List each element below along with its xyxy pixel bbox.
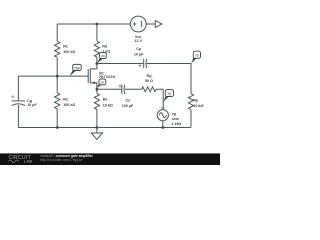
svg-text:http://circuitlab.com/c7dyq4w: http://circuitlab.com/c7dyq4w [40,158,83,162]
svg-text:10 kΩ: 10 kΩ [103,103,113,107]
resistor R2 [56,76,58,93]
capacitor Cg [12,100,26,102]
wire source node to Cs [97,88,121,90]
svg-text:vg: vg [172,112,176,116]
node flag vs [96,79,106,88]
svg-text:100 µF: 100 µF [122,104,134,108]
resistor Rd [94,41,99,57]
svg-text:50 Ω: 50 Ω [145,79,153,83]
svg-text:Rs: Rs [103,98,108,102]
footer bar [0,153,220,165]
node flag vga [70,64,82,76]
ground [96,128,98,134]
junction node ground bus / vg source [161,126,164,129]
junction node vd [96,62,99,65]
wire R1 bottom to gate node [56,57,58,76]
svg-text:vs: vs [101,81,105,85]
svg-text:R1: R1 [63,45,68,49]
wire vg source bottom to bus [162,121,164,128]
wire Cg top [17,76,19,101]
resistor Rs [96,89,98,93]
svg-text:Cs: Cs [125,99,130,103]
svg-text:vd: vd [101,54,105,58]
svg-text:Rd: Rd [102,45,108,49]
wire Rd column top [96,24,98,41]
net pointer triangle Vcc [155,21,162,28]
voltage source Vcc [130,16,146,32]
svg-text:Rp: Rp [193,99,199,103]
capacitor Cs [121,85,123,94]
svg-text:LAB: LAB [24,160,32,164]
svg-text:10 µF: 10 µF [27,103,37,107]
svg-text:vp: vp [195,53,199,57]
wire top rail Vcc net [57,23,130,25]
wire Cg bottom to bus [17,105,19,128]
junction node ground bus / Rs [96,126,99,129]
transistor M1 [87,69,89,83]
wire drain node to Cp [97,63,143,65]
wire Cs to Rg [125,88,142,90]
svg-text:100 kΩ: 100 kΩ [63,103,75,107]
svg-text:R2: R2 [63,98,68,102]
footer logo CircuitLab [9,155,33,164]
svg-text:Cp: Cp [136,47,142,51]
capacitor Cp [143,59,145,68]
wire Cp to vp corner [147,64,191,94]
svg-text:vg: vg [168,92,172,96]
wire Vcc to pointer [146,23,155,25]
svg-text:12 V: 12 V [134,39,142,43]
svg-text:vga: vga [74,66,80,70]
svg-text:10 µF: 10 µF [134,52,144,56]
node flag vg [163,90,173,102]
node flag vd [97,53,106,64]
svg-text:1 kHz: 1 kHz [172,122,182,126]
svg-text:Vcc: Vcc [135,35,142,39]
svg-text:sine: sine [172,117,179,121]
svg-text:10 kΩ: 10 kΩ [193,104,203,108]
resistor Rp [188,94,193,110]
junction node ground bus / R2 [56,126,59,129]
junction node vs [96,88,99,91]
voltage source vg sine [157,110,168,121]
wire bottom ground bus [18,127,191,129]
transistor M1 source arrow [93,81,96,84]
wire left column top (rail to R1) [56,24,58,41]
svg-text:100 kΩ: 100 kΩ [63,50,75,54]
wire Rg to source vg corner [156,89,163,109]
resistor Rg [142,87,157,92]
wire gate horizontal [18,75,88,77]
resistor R1 [55,41,60,57]
junction node Vcc rail / Rd [96,23,99,26]
svg-text:Rg: Rg [147,74,152,78]
junction node gate (R1/R2 divider) [56,75,59,78]
node flag vp [191,51,200,63]
